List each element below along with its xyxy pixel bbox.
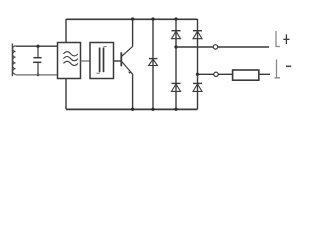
wire: U1 to U2 mid link xyxy=(81,60,91,62)
diode D4 (right top) xyxy=(193,31,202,39)
U1 wave symbol bottom xyxy=(64,61,78,65)
wire: stub U1 top to top rail xyxy=(65,19,67,43)
node: left leg top rail xyxy=(174,17,177,20)
rectifier-filter box U1 xyxy=(58,43,81,79)
wire: bottom rail xyxy=(66,108,198,110)
node: left leg bottom rail xyxy=(174,108,177,111)
resistor R1 xyxy=(233,70,259,80)
transformer T1 core bar xyxy=(11,44,13,77)
U2 left bar xyxy=(99,48,101,73)
transformer T1 winding xyxy=(13,46,16,75)
wire: bridge left leg xyxy=(175,19,177,109)
diode D5 (right bottom) xyxy=(193,83,202,91)
label - xyxy=(286,65,291,67)
diode D3 (left bottom) xyxy=(172,83,181,91)
wire: freewheel diode leg xyxy=(152,19,154,109)
diode D1 (freewheel) xyxy=(149,59,158,66)
transistor Q1 base bar xyxy=(120,52,122,66)
electrode upper (+) xyxy=(276,31,280,47)
label + xyxy=(283,34,289,44)
transistor Q1 collector diagonal xyxy=(122,46,133,56)
wire: winding top lead to filter box xyxy=(16,45,58,47)
wire: Q1 emitter to bottom rail xyxy=(132,74,134,109)
node: left leg mid junction xyxy=(174,45,177,48)
node: right leg mid junction xyxy=(196,73,199,76)
node: D1 bottom rail xyxy=(151,108,154,111)
terminal: lower output circle xyxy=(214,72,218,76)
node: cap bottom junction xyxy=(37,74,40,77)
node: D1 top rail xyxy=(151,17,154,20)
terminal: upper output circle xyxy=(213,45,217,49)
U2 top tick xyxy=(104,46,107,48)
wire: lower output xyxy=(198,73,271,75)
diode D2 (left top) xyxy=(172,31,181,39)
U1 wave symbol top xyxy=(64,52,78,56)
U1 wave symbol middle xyxy=(64,57,78,61)
node: emitter on bottom rail xyxy=(131,108,134,111)
U2 right bar xyxy=(103,48,105,73)
wire: U2 to transistor base xyxy=(114,60,121,62)
wire: upper output xyxy=(176,46,269,48)
transistor Q1 emitter diagonal xyxy=(122,62,133,75)
wire: top rail xyxy=(66,18,198,20)
driver box U2 xyxy=(90,43,114,79)
capacitor C1 xyxy=(33,46,41,75)
wire: stub U1 bottom to bottom rail xyxy=(65,79,67,110)
node: cap top junction xyxy=(36,45,39,48)
wire: Q1 collector to top rail xyxy=(132,19,134,46)
transistor Q1 emitter arrow xyxy=(128,72,131,74)
U2 bottom tick xyxy=(96,72,99,74)
electrode lower (-) xyxy=(275,60,281,78)
node: collector on top rail xyxy=(131,17,134,20)
wire: winding bottom lead to filter box xyxy=(16,74,58,76)
wire: bridge right leg xyxy=(197,19,199,109)
